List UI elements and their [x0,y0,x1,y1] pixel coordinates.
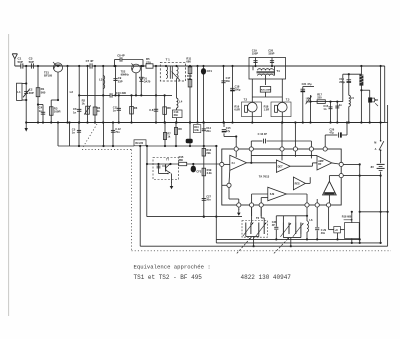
wire IC int 0 [251,154,317,156]
wire right rail [384,66,386,123]
wire IC int 8 [310,151,312,158]
resistor R7 [164,123,166,147]
svg-text:23P: 23P [118,79,123,83]
svg-text:1n: 1n [113,109,116,113]
wire C16 link [250,141,252,147]
dashed leader [83,124,98,148]
wire ant column [25,66,27,123]
svg-text:680: 680 [186,60,191,64]
svg-text:C 16 4P: C 16 4P [258,132,268,136]
svg-text:F.I: F.I [232,161,235,165]
wire vol wire [311,101,343,103]
svg-text:150P: 150P [252,52,258,56]
svg-text:1n: 1n [39,109,43,113]
svg-text:CF1: CF1 [207,69,213,73]
battery tap box [328,207,330,226]
pin right a [339,162,343,166]
wire right edge [385,122,388,124]
svg-text:L5: L5 [351,96,355,100]
resistor R2 [87,66,89,123]
svg-text:S.M: S.M [270,193,274,196]
wire x360 column [359,164,361,243]
resistor R10 [188,79,192,87]
wire battery to W3 [380,212,382,243]
resistor R20 [260,87,270,93]
capacitor C4 [42,105,44,123]
svg-text:BF: BF [318,163,322,166]
trimmer C2 [24,91,28,93]
potentiometer VR [310,95,312,123]
pin left b [227,183,231,187]
svg-text:OA70: OA70 [144,79,151,83]
resistor R12 [203,146,205,217]
capacitor in T7 box [158,164,160,174]
transformer T1 core [169,66,171,79]
inductor L2 [68,94,70,96]
svg-text:R9 220: R9 220 [135,142,143,145]
wire IC int 3 [250,151,252,163]
box T7 [153,158,179,180]
wire W2b [216,242,380,244]
svg-text:50P: 50P [18,60,23,64]
svg-text:R8: R8 [178,127,182,131]
capacitor C1 [20,63,22,68]
svg-text:220: 220 [317,96,322,100]
wire W3 [139,146,141,246]
transformer T4 box [249,58,286,80]
capacitor C9 [115,66,117,95]
svg-text:8R: 8R [375,99,378,102]
op-amp AMPBF [317,156,332,170]
svg-text:30P: 30P [29,91,34,95]
wire IC int 17 [260,198,262,203]
svg-text:C8 4P: C8 4P [117,54,125,58]
inductor L4 [176,79,178,99]
svg-text:4P: 4P [272,224,275,227]
transistor T2 box [242,102,262,117]
wire IC int 12 [286,193,307,195]
wire W1 [146,164,148,217]
resistor R11 [189,66,191,123]
svg-text:2.2k: 2.2k [207,171,213,175]
dashed enclosure left [131,150,133,251]
resistor R3 [50,100,52,123]
svg-text:A: A [375,148,377,151]
transistor T7 [165,165,167,172]
svg-text:1k: 1k [82,102,85,106]
diode D2 [189,123,191,147]
wire C26 link [324,135,326,147]
capacitor C14 [203,123,205,147]
filter CF1 [203,66,205,123]
transistor T3 [278,102,288,112]
svg-text:470: 470 [187,77,192,81]
capacitor C20 [271,58,273,67]
svg-text:C10 390: C10 390 [116,91,127,95]
transistor TS1 [53,63,62,72]
svg-text:270: 270 [146,60,151,64]
pin top 3 [280,147,284,151]
filter CF2 [191,166,196,173]
diode D1 [140,66,142,95]
wire H3-H4 link [146,146,148,164]
svg-text:70n: 70n [115,130,120,134]
wire IC int 10 [329,175,339,177]
svg-text:20n: 20n [206,198,211,202]
capacitor C15 [223,123,225,128]
svg-text:R6: R6 [134,106,138,110]
speaker LS1 [368,97,372,102]
wire T4 drops [252,66,254,70]
wire H1 top rail [15,65,21,67]
inductor L5 [349,95,351,98]
svg-text:1n: 1n [72,131,75,135]
capacitor C10 [109,93,111,97]
wire IC int 11 [305,182,310,184]
resistor R15 [179,162,187,165]
capacitor C5 [57,123,59,147]
svg-text:50P: 50P [29,60,34,64]
capacitor C16b [348,74,350,95]
resistor R9 [134,140,146,146]
capacitor C16 [263,139,265,144]
svg-text:150P: 150P [268,52,274,56]
svg-text:L3: L3 [99,78,103,82]
antenna AN1 [14,59,16,66]
capacitor C12 [112,123,114,147]
pin top 2 [249,147,253,151]
pin top 6 [323,147,327,151]
wire IC int 7 [294,151,296,157]
pin bottom 3 [259,203,263,207]
wire IC int 2 [247,162,277,164]
svg-text:20n: 20n [206,129,211,133]
ground under T7 [171,174,173,184]
capacitor C6 [77,108,81,110]
svg-text:680: 680 [179,158,184,162]
wire IC int 4 [235,151,237,157]
svg-text:C7 4P: C7 4P [86,59,94,63]
capacitor C28 [275,216,277,227]
svg-text:22k: 22k [206,151,211,155]
capacitor C8b [119,57,121,61]
svg-text:Equivalence approchée :: Equivalence approchée : [134,264,211,271]
wire right pin b [343,175,380,177]
svg-text:47µ: 47µ [226,129,231,133]
wire right pin a [343,163,359,165]
svg-text:L2: L2 [70,90,74,94]
svg-text:C21 47µ: C21 47µ [302,82,312,86]
capacitor C3 [30,63,32,68]
resistor R8 [175,123,177,147]
capacitor C11 [118,95,120,122]
pin top 1 [234,147,238,151]
wire IC int 14 [228,170,231,183]
capacitor C7 [89,63,91,68]
resistor R8a [164,95,166,122]
wire IC int 16 [328,195,330,203]
wire W2 [216,238,359,240]
scan edge artifact [8,34,10,316]
transformer T4 winding [258,69,262,71]
wire H4 IF line [147,163,179,165]
resistor R18 [275,105,278,112]
svg-text:4n: 4n [339,103,342,107]
capacitor C21 [302,87,304,123]
wire IC int 6 [290,165,312,167]
pin bottom 5 [315,203,319,207]
wire H3 AGC bus [58,145,134,147]
transistor TS2 [132,64,141,73]
transistor T2 [248,102,258,112]
svg-text:1n: 1n [323,107,326,111]
wire IC int 5 [281,151,283,160]
wire IC int 1 [224,163,230,165]
pin top 4 [293,147,297,151]
wire IC int 15 [228,187,230,199]
inductor L6 [306,207,308,221]
svg-text:T4: T4 [276,69,280,73]
svg-text:L4: L4 [179,100,183,104]
wire IC int 9 [332,163,339,164]
ground pin1 [238,207,240,210]
svg-text:8V: 8V [371,165,374,169]
inductor L3 [102,66,104,123]
capacitor C22 [330,102,332,123]
svg-text:R8: R8 [167,106,171,110]
svg-text:BF195: BF195 [44,74,53,78]
svg-text:TS1 et TS2 - BF 495: TS1 et TS2 - BF 495 [134,274,203,281]
pin right b [339,174,343,178]
dashed enclosure top [82,149,132,151]
inductor L1 [17,83,23,100]
resistor R6 [131,95,133,122]
dashed enclosure bottom [132,250,392,252]
variable capacitor CV1 [251,207,253,222]
svg-text:M: M [374,141,376,144]
wire IF tap [79,94,110,96]
op-amp AMPL [323,181,337,195]
pin left a [220,162,224,166]
wire column x67 [67,66,69,123]
IC U1 body [222,149,341,205]
variable capacitor CV2 [260,207,262,218]
op-amp SM [268,187,287,201]
transistor T3 box [271,102,291,117]
svg-text:R18 680: R18 680 [342,216,352,219]
svg-text:20n: 20n [226,79,231,83]
battery B1 8V [377,163,385,165]
resistor R1 [37,66,39,123]
capacitor C29 [316,207,318,227]
wire pin up bus 2 [294,123,296,147]
wire column x216 [215,146,217,239]
wire speaker link [361,89,369,91]
svg-text:R20 220R: R20 220R [261,89,271,91]
wire pin up bus 1 [281,123,283,147]
capacitor C8 [155,66,157,123]
wire column C6 [78,66,80,123]
svg-text:1n: 1n [73,110,77,114]
svg-text:90MHz: 90MHz [121,73,130,77]
transformer T1 box [160,62,185,81]
wire IC int 13 [252,193,268,195]
resistor R16 [245,105,248,112]
svg-text:4822 130 40947: 4822 130 40947 [241,274,292,281]
svg-text:1k: 1k [97,109,100,113]
svg-text:DET: DET [278,165,283,168]
op-amp DET [276,160,290,172]
resistor R13 label box [193,125,200,133]
svg-text:TA 7613: TA 7613 [259,174,270,178]
op-amp FI [230,155,247,170]
svg-text:3.3k: 3.3k [194,129,199,132]
svg-text:20n: 20n [174,113,179,117]
resistor R4 [94,66,96,123]
capacitor C13 label box [176,108,178,110]
tuning pointer 2 [274,238,289,254]
wire column x197 [197,66,199,123]
tuning pointer 1 [237,238,251,254]
pin bottom 2 [250,203,254,207]
tuning gang box T6 [242,221,268,238]
wire battery column [380,66,382,141]
capacitor C26 [338,132,340,137]
capacitor C27 [202,198,206,200]
svg-text:C.8: C.8 [149,108,154,112]
node A bus stub [25,123,27,129]
wire y212 [360,211,388,213]
variable capacitor CV3 [276,215,307,217]
transformer T1 secondary [177,67,179,71]
capacitor C24 [336,102,338,123]
wire bypass loop [114,60,116,67]
svg-text:T7: T7 [166,157,170,161]
svg-text:REG: REG [295,183,300,186]
svg-text:T 1: T 1 [166,58,171,62]
resistor R5 [146,64,153,68]
svg-text:1.5R: 1.5R [264,107,270,111]
svg-text:220µ: 220µ [339,80,345,84]
wire to output [342,74,344,101]
potentiometer P1 box [345,223,360,239]
pin bottom 4 [305,203,309,207]
wire pin1 up [235,137,237,147]
svg-text:6.8R: 6.8R [234,107,240,111]
capacitor C17 [223,66,225,123]
svg-text:560: 560 [41,90,46,94]
op-amp REG [293,177,305,190]
svg-text:T.3: T.3 [286,98,290,102]
wire H2 ground bus [26,122,385,124]
svg-text:100R: 100R [54,110,61,114]
capacitor C18 [232,66,234,123]
pin bottom 6 [327,203,331,207]
svg-text:40n: 40n [321,232,326,235]
wire pin drops [251,207,253,216]
svg-text:100µ: 100µ [235,88,241,92]
transformer T1 primary [165,65,167,68]
resistor R19 [202,168,205,176]
pin top 5 [309,147,313,151]
resistor R17 [317,100,325,104]
choke T5 [360,66,362,123]
svg-text:T.2: T.2 [244,98,248,102]
svg-text:47µ: 47µ [329,131,334,135]
svg-text:CF2: CF2 [196,170,201,174]
pin bottom 1 [237,203,241,207]
wire base split [265,92,267,97]
svg-text:L1: L1 [17,90,21,94]
switch S1 [379,141,384,150]
transformer T1 tap [172,72,181,81]
capacitor C19 [255,58,257,67]
